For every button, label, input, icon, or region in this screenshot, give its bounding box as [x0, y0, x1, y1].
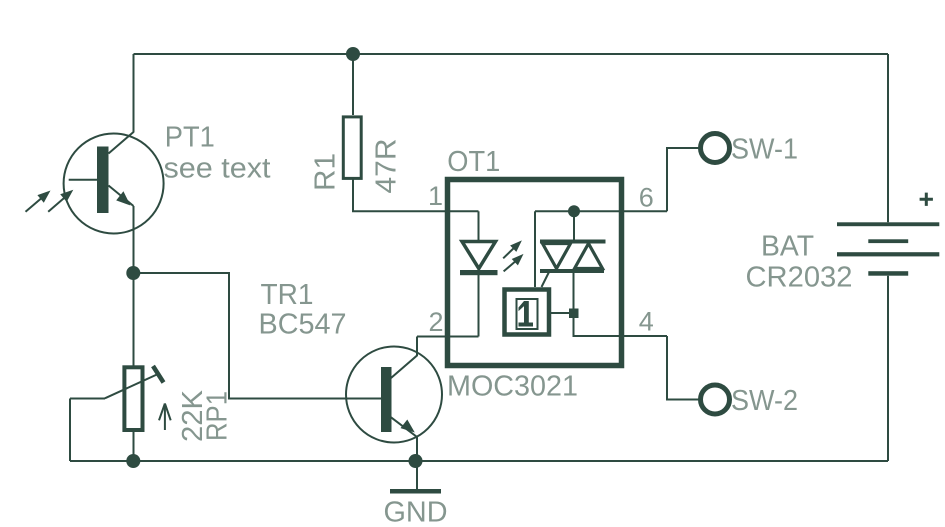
svg-text:SW-1: SW-1 — [731, 134, 798, 166]
svg-text:TR1: TR1 — [261, 279, 314, 311]
battery BAT — [837, 222, 939, 226]
svg-text:SW-2: SW-2 — [731, 385, 798, 417]
wire battery bottom — [887, 276, 889, 461]
wire junction to pot top — [133, 273, 135, 366]
LED inside OT1 — [478, 211, 480, 240]
wire pin6 to SW-1 — [667, 148, 701, 211]
triac inside OT1 — [540, 240, 606, 244]
wire triac bottom to junction — [574, 273, 668, 336]
light arrows — [503, 246, 517, 271]
ground — [390, 489, 441, 494]
wire R1 to OT1 pin1 — [353, 179, 479, 211]
svg-text:BC547: BC547 — [259, 309, 347, 341]
diac box 1 — [505, 290, 550, 335]
plus sign — [920, 193, 933, 206]
node pin6 internal junction — [568, 205, 580, 217]
svg-text:GND: GND — [384, 497, 448, 527]
wire diac to junction — [549, 312, 569, 314]
wire left bottom vertical — [69, 399, 71, 462]
svg-text:2: 2 — [428, 307, 443, 337]
svg-text:MOC3021: MOC3021 — [447, 371, 578, 403]
svg-text:1: 1 — [428, 181, 443, 211]
wire bottom rail — [70, 460, 888, 462]
node TR1 emitter junction — [409, 454, 423, 468]
svg-text:47R: 47R — [371, 139, 403, 194]
wire pin6 internal — [535, 210, 667, 212]
svg-text:see text: see text — [164, 153, 271, 185]
transistor TR1 — [346, 337, 442, 490]
svg-text:R1: R1 — [310, 153, 342, 191]
adjustment arrow — [159, 404, 171, 431]
wire PT1 emitter down — [133, 206, 135, 273]
wire battery top — [887, 54, 889, 222]
svg-text:4: 4 — [639, 307, 654, 337]
node gate junction — [569, 309, 579, 319]
potentiometer RP1 — [124, 367, 142, 430]
triac gate diagonal — [542, 272, 550, 287]
svg-text:6: 6 — [639, 182, 654, 212]
wire triac top — [573, 211, 575, 240]
svg-text:RP1: RP1 — [202, 391, 234, 441]
resistor R1 — [352, 54, 354, 115]
wire left vertical to PT1 collector — [133, 54, 135, 133]
svg-text:CR2032: CR2032 — [746, 262, 853, 294]
node top junction — [346, 47, 360, 61]
svg-text:BAT: BAT — [761, 231, 814, 263]
transistor PT1 — [26, 132, 164, 234]
wiper arm RP1 — [105, 374, 158, 398]
wire wiper feed — [70, 398, 105, 400]
svg-text:PT1: PT1 — [165, 122, 215, 154]
wire internal left drop — [534, 211, 536, 287]
op-to coupler OT1 box — [448, 180, 622, 366]
terminal SW-2 — [701, 385, 730, 414]
node emitter junction — [126, 266, 140, 280]
node pot bottom junction — [126, 454, 140, 468]
wire pin4 to SW-2 — [667, 336, 701, 400]
svg-text:OT1: OT1 — [447, 146, 500, 178]
wire pin2 — [417, 336, 479, 338]
wiper slot bar — [153, 366, 164, 383]
terminal SW-1 — [701, 134, 730, 163]
wire pot bottom — [133, 429, 135, 461]
wire junction to TR1 base — [134, 273, 382, 399]
wire top rail — [134, 53, 889, 55]
